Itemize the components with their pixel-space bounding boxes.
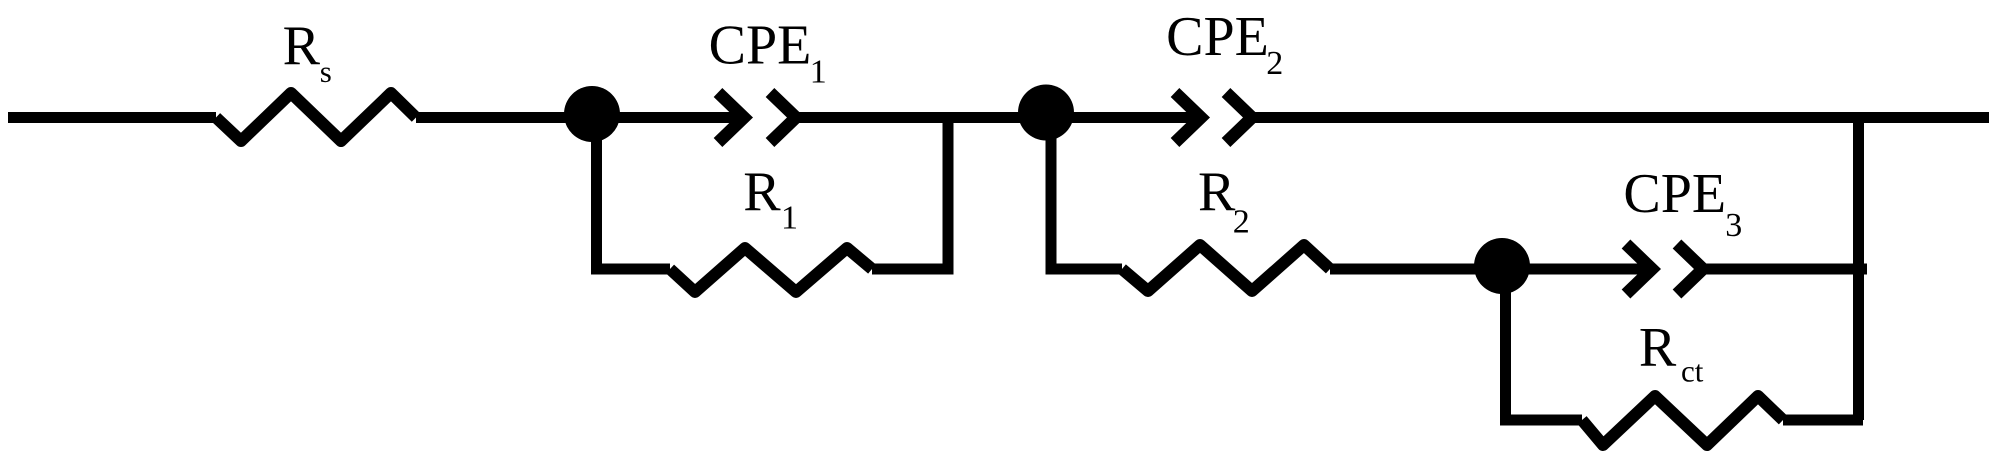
svg-text:CPE: CPE: [709, 15, 812, 77]
svg-text:s: s: [320, 54, 332, 89]
wire R2 branch left drop: [1051, 114, 1122, 269]
node A junction dot: [564, 86, 620, 142]
wire R1 branch left drop: [597, 114, 671, 269]
wire R1 branch right rise: [872, 112, 948, 269]
svg-text:R: R: [283, 15, 321, 77]
svg-text:R: R: [743, 161, 781, 223]
wire right vertical: [1853, 112, 1864, 420]
svg-text:1: 1: [781, 200, 798, 237]
svg-text:3: 3: [1725, 207, 1742, 244]
wire Rct branch left drop: [1506, 266, 1583, 420]
svg-text:2: 2: [1266, 45, 1283, 82]
svg-text:R: R: [1639, 317, 1677, 379]
wire main line left lead: [8, 112, 216, 123]
resistor R1: [670, 248, 872, 292]
CPE2: [1175, 93, 1252, 143]
resistor Rs: [216, 93, 416, 141]
svg-text:R: R: [1198, 161, 1236, 223]
resistor Rct: [1582, 396, 1783, 445]
svg-text:ct: ct: [1681, 354, 1704, 389]
wire CPE3 to right vertical: [1703, 264, 1867, 275]
resistor R2: [1122, 245, 1330, 291]
CPE3: [1626, 244, 1703, 294]
svg-text:CPE: CPE: [1623, 163, 1726, 225]
svg-text:2: 2: [1233, 204, 1250, 241]
wire Rct to right vertical: [1783, 415, 1863, 426]
node B junction dot: [1018, 85, 1074, 141]
CPE1: [718, 93, 796, 143]
node C junction dot: [1474, 238, 1530, 294]
wire main line Rs to CPE1: [416, 112, 737, 123]
svg-text:1: 1: [810, 54, 827, 91]
wire R2 to node C and on to CPE3: [1330, 264, 1644, 275]
svg-text:CPE: CPE: [1166, 6, 1269, 68]
wire main line CPE2 to right end: [1253, 112, 1989, 123]
wire main line CPE1 to CPE2: [797, 112, 1194, 123]
